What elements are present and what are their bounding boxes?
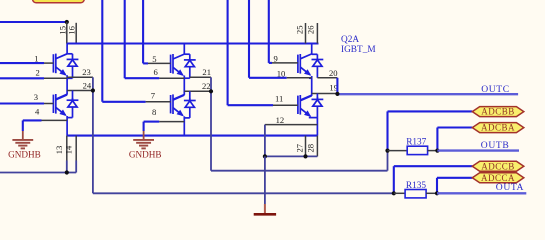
wire OUTA	[437, 192, 526, 194]
pin 15	[57, 22, 67, 44]
svg-text:28: 28	[306, 144, 316, 153]
pin 12	[265, 115, 318, 125]
wire feed (pin 5)	[143, 0, 148, 63]
wire phase2 output	[211, 77, 388, 170]
wire diode top lead phase3 lower	[316, 94, 318, 100]
svg-text:1: 1	[34, 54, 38, 64]
svg-text:ADCCB: ADCCB	[481, 161, 515, 171]
resistor R137	[388, 138, 438, 155]
wire emitter node phase2	[184, 76, 190, 95]
pin 2	[0, 68, 67, 79]
svg-text:GNDHB: GNDHB	[129, 150, 162, 160]
wire ADCCA riser	[437, 178, 472, 194]
wire emitter jog phase2 lower	[184, 116, 190, 135]
pin 3	[0, 92, 53, 103]
svg-text:4: 4	[35, 106, 40, 116]
svg-text:6: 6	[154, 67, 159, 77]
diode D-d	[184, 98, 196, 118]
wire ADCBB riser	[388, 111, 473, 150]
pin 10	[277, 68, 312, 78]
wire phase1 output	[93, 77, 394, 193]
pin 16	[67, 23, 77, 44]
junction pin12 wire	[263, 154, 267, 158]
transistor Q2A-d (IGBT)	[171, 94, 185, 116]
wire collector lead phase2 lower	[173, 95, 184, 100]
junction pin19/OUTC	[335, 92, 339, 96]
junction on DC+ rail	[65, 20, 69, 24]
svg-text:11: 11	[275, 93, 283, 103]
port ADCBB	[472, 107, 524, 117]
svg-text:23: 23	[82, 67, 91, 77]
wire collector lead phase2 upper	[184, 44, 190, 55]
svg-text:8: 8	[152, 107, 156, 117]
junction OUTB right	[435, 149, 439, 153]
wire pin12 to ground net	[265, 125, 318, 157]
pin 11	[273, 93, 298, 105]
port P? (top edge, partially visible)	[33, 0, 85, 3]
svg-text:2: 2	[36, 68, 40, 78]
wire to power ground	[264, 156, 266, 204]
svg-text:12: 12	[276, 115, 285, 125]
wire emitter bus	[67, 135, 318, 137]
pin 20	[317, 68, 337, 78]
svg-text:27: 27	[294, 143, 304, 152]
svg-text:3: 3	[34, 92, 38, 102]
wire diode top lead phase2 lower	[189, 91, 191, 100]
wire diode top lead phase1 lower	[72, 91, 74, 101]
svg-text:ADCBA: ADCBA	[481, 123, 515, 133]
wire emitter node phase3	[309, 76, 312, 96]
wire collector lead phase3 lower	[301, 96, 312, 101]
svg-text:20: 20	[329, 68, 338, 78]
transistor Q2A-c (IGBT)	[171, 54, 185, 76]
wire pins 13/14 to GNDHB net	[0, 161, 76, 173]
transistor Q2A-a (IGBT)	[53, 54, 67, 76]
wire DC+ rail	[0, 21, 67, 23]
transistor Q2A-e (IGBT)	[298, 54, 312, 76]
wire emitter node phase1	[67, 75, 72, 94]
wire gate feed (pin 7)	[102, 0, 145, 102]
diode D-b	[67, 98, 79, 118]
svg-text:26: 26	[305, 25, 315, 34]
wire ADCCB riser	[394, 166, 473, 193]
pin 13	[54, 136, 67, 161]
junction OUTA right	[435, 191, 439, 195]
svg-text:16: 16	[67, 25, 77, 34]
svg-text:9: 9	[274, 53, 278, 63]
pin 23	[67, 67, 93, 77]
pin 28	[306, 136, 318, 157]
svg-text:10: 10	[277, 68, 286, 78]
wire OUTB	[437, 149, 519, 151]
svg-text:ADCBB: ADCBB	[481, 107, 515, 117]
svg-text:7: 7	[151, 91, 156, 101]
svg-text:22: 22	[202, 81, 211, 91]
pin 27	[294, 136, 305, 157]
svg-text:GNDHB: GNDHB	[8, 150, 41, 160]
svg-text:R135: R135	[406, 181, 426, 191]
wire emitter jog phase1 lower	[67, 116, 72, 136]
pin 8	[144, 107, 185, 122]
svg-text:Q2A: Q2A	[341, 35, 359, 45]
wire feed (pin 6)	[125, 0, 160, 78]
junction OUTA left	[392, 191, 396, 195]
svg-text:21: 21	[202, 67, 211, 77]
pin 4	[23, 106, 67, 120]
pin 5	[148, 54, 171, 64]
resistor R135	[394, 181, 437, 198]
port ADCCA	[472, 173, 524, 183]
pin 24	[67, 80, 93, 90]
port ADCCB	[472, 161, 524, 171]
svg-text:OUTB: OUTB	[481, 140, 510, 151]
pin 25	[294, 23, 305, 44]
svg-text:R137: R137	[406, 138, 426, 148]
svg-text:14: 14	[63, 145, 73, 154]
ground GNDHB (phase1)	[8, 120, 41, 159]
pin 21	[190, 67, 211, 78]
pin 19	[312, 82, 338, 93]
pin 7	[146, 91, 171, 102]
pin 22	[184, 81, 211, 92]
pin 6	[154, 67, 185, 78]
junction pin27 wire	[303, 154, 307, 158]
svg-text:24: 24	[83, 80, 92, 90]
diode D-f	[312, 97, 324, 118]
svg-text:OUTA: OUTA	[496, 182, 524, 193]
wire feed (pin 11)	[228, 0, 273, 105]
pin 9	[272, 53, 298, 63]
svg-text:5: 5	[152, 54, 156, 64]
port ADCBA	[472, 123, 524, 133]
pin 26	[305, 23, 317, 44]
wire ADCBA riser	[437, 128, 472, 151]
transistor Q2A-f (IGBT)	[298, 95, 312, 117]
diode D-e	[312, 54, 324, 78]
diode D-a	[67, 54, 79, 79]
wire emitter jog phase3 lower	[309, 118, 318, 136]
svg-text:25: 25	[294, 26, 304, 35]
wire feed (pin 10)	[249, 0, 287, 78]
diode D-c	[184, 54, 196, 78]
svg-text:OUTC: OUTC	[481, 84, 510, 95]
ground (power, bottom)	[254, 204, 276, 214]
svg-text:IGBT_M: IGBT_M	[341, 45, 376, 55]
junction pin22/output	[209, 89, 213, 93]
junction pin24/output	[91, 88, 95, 92]
wire collector lead Q phase1 upper	[67, 44, 72, 54]
junction OUTB left	[385, 149, 389, 153]
transistor Q2A-b (IGBT)	[53, 94, 67, 116]
wire collector lead phase1 lower	[56, 95, 67, 100]
wire collector bus	[67, 42, 319, 44]
junction pin13/ground wire	[65, 170, 69, 174]
pin 14	[63, 136, 76, 161]
ground GNDHB (phase2)	[129, 122, 162, 160]
wire feed (pin 9)	[269, 0, 272, 63]
pin 1	[0, 54, 53, 64]
wire collector lead phase3 upper	[312, 44, 318, 55]
wire phase3 output to OUTC	[337, 78, 518, 94]
